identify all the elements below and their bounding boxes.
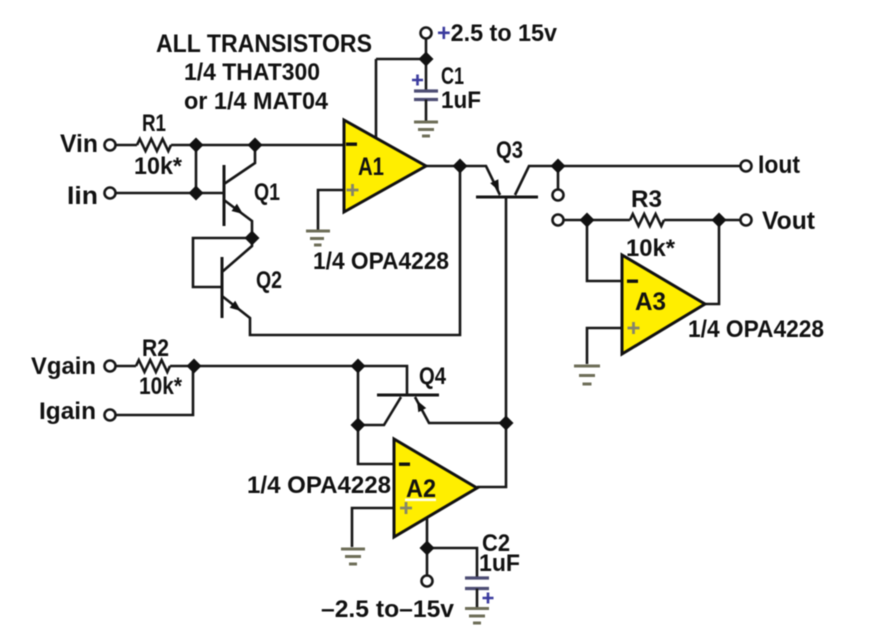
svg-text:1/4 OPA4228: 1/4 OPA4228 — [313, 248, 449, 275]
svg-text:1/4 OPA4228: 1/4 OPA4228 — [688, 316, 824, 343]
svg-text:10k*: 10k* — [626, 235, 676, 262]
svg-text:1uF: 1uF — [441, 87, 481, 114]
svg-text:Iin: Iin — [67, 182, 98, 210]
svg-text:Q1: Q1 — [254, 179, 280, 206]
svg-text:–2.5 to–15v: –2.5 to–15v — [321, 596, 455, 623]
svg-text:+2.5 to 15v: +2.5 to 15v — [437, 20, 558, 47]
svg-text:10k*: 10k* — [139, 373, 183, 400]
svg-text:Q3: Q3 — [496, 137, 523, 164]
svg-text:Vout: Vout — [762, 207, 816, 235]
svg-text:A3: A3 — [635, 288, 666, 316]
svg-text:Vin: Vin — [60, 130, 98, 158]
svg-text:Q2: Q2 — [256, 267, 282, 294]
svg-text:Igain: Igain — [39, 398, 96, 425]
svg-text:ALL TRANSISTORS: ALL TRANSISTORS — [156, 30, 372, 58]
svg-text:1uF: 1uF — [479, 550, 520, 577]
svg-text:A1: A1 — [358, 153, 384, 181]
svg-text:Vgain: Vgain — [31, 353, 96, 380]
svg-text:A2: A2 — [406, 475, 436, 503]
svg-text:Q4: Q4 — [419, 363, 447, 390]
svg-text:or 1/4 MAT04: or 1/4 MAT04 — [184, 88, 329, 115]
svg-text:R1: R1 — [142, 110, 166, 137]
svg-text:C1: C1 — [441, 63, 464, 90]
svg-text:1/4 OPA4228: 1/4 OPA4228 — [247, 472, 391, 499]
svg-text:Iout: Iout — [758, 151, 801, 179]
svg-text:1/4 THAT300: 1/4 THAT300 — [184, 59, 320, 86]
svg-text:R3: R3 — [631, 186, 662, 213]
svg-text:R2: R2 — [142, 335, 169, 362]
svg-text:10k*: 10k* — [134, 153, 183, 180]
